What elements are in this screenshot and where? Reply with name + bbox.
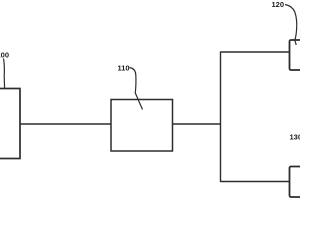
- svg-text:120: 120: [272, 0, 285, 9]
- block 130 (bottom right box, cut off at right edge): [290, 167, 312, 198]
- branch vertical wire: [220, 52, 222, 183]
- leader line for 100: [4, 59, 5, 89]
- wire branch to block 120: [221, 51, 290, 53]
- leader line for 110: [130, 68, 143, 110]
- block 100 (left box, cut off at left edge): [0, 89, 20, 159]
- block 110 (middle box): [111, 100, 173, 152]
- svg-text:100: 100: [0, 51, 9, 60]
- block 120 (top right box, cut off at right edge): [290, 40, 312, 70]
- wire branch to block 130: [221, 181, 290, 183]
- svg-text:110: 110: [118, 64, 130, 73]
- wire left box to middle box: [20, 123, 111, 125]
- wire middle box to branch node: [173, 123, 221, 125]
- leader line for 120: [285, 5, 297, 46]
- svg-text:130: 130: [290, 133, 301, 142]
